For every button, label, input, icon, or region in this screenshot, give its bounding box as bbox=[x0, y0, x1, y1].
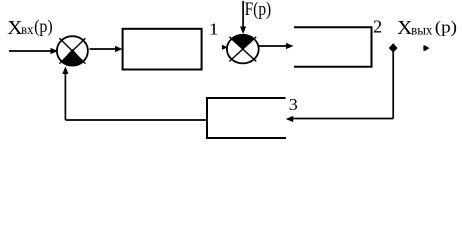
wire output arrowhead bbox=[423, 45, 429, 51]
wire S1 to block 1 bbox=[90, 46, 123, 52]
block 2 (rectangle open on left) bbox=[294, 27, 372, 67]
wire feedback from block 3 left and up into S1 bbox=[62, 67, 207, 121]
svg-text:1: 1 bbox=[209, 20, 219, 38]
label 1 bbox=[209, 20, 219, 38]
wire input arrow into summing junction S1 bbox=[9, 48, 58, 54]
wire arrowhead into summing junction S2 bbox=[222, 45, 228, 50]
summing junction S2 (top sector filled) bbox=[227, 35, 259, 64]
block 1 (rectangle) bbox=[123, 29, 202, 70]
node branch point (diamond) bbox=[389, 43, 398, 52]
wire S2 to block 2 bbox=[259, 43, 294, 49]
svg-text:2: 2 bbox=[373, 16, 382, 36]
svg-text:F(p): F(p) bbox=[245, 0, 272, 19]
summing junction S1 (comparator, bottom sector filled) bbox=[57, 36, 88, 65]
svg-text:(p): (p) bbox=[34, 16, 53, 36]
svg-text:(p): (p) bbox=[435, 18, 457, 38]
label Xvx(p) input signal bbox=[7, 16, 53, 39]
label F(p) disturbance bbox=[245, 0, 272, 19]
wire F(p) arrow down into S2 bbox=[240, 1, 246, 34]
svg-text:вх: вх bbox=[21, 22, 34, 37]
label 2 bbox=[373, 16, 382, 36]
svg-text:3: 3 bbox=[289, 95, 298, 114]
label 3 bbox=[289, 95, 298, 114]
svg-text:вых: вых bbox=[411, 22, 433, 37]
label Xvyx(p) output signal bbox=[397, 18, 457, 39]
block 3 (feedback rectangle open on right) bbox=[207, 98, 286, 138]
wire feedback from node down and left into block 3 bbox=[286, 51, 394, 122]
